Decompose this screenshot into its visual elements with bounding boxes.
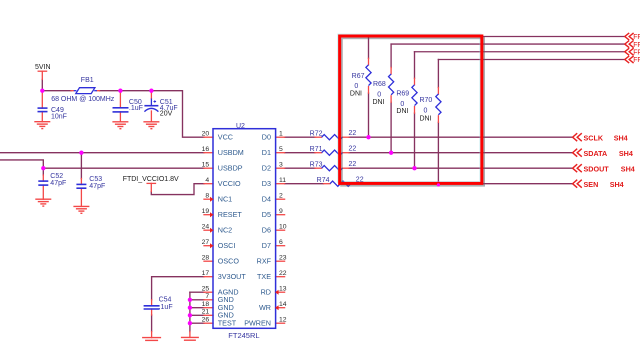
svg-text:3: 3 [279,162,283,169]
svg-text:D4: D4 [262,195,271,204]
svg-text:R71: R71 [310,146,323,153]
svg-text:22: 22 [356,177,364,184]
svg-text:D0: D0 [262,133,271,142]
svg-text:SH4: SH4 [610,180,624,189]
svg-text:NC2: NC2 [218,226,232,235]
svg-text:FFC: FFC [633,57,640,64]
svg-text:0: 0 [354,83,358,90]
svg-text:FB1: FB1 [81,77,94,84]
svg-text:11: 11 [279,177,286,184]
svg-text:0: 0 [400,101,404,108]
svg-text:FFC: FFC [633,42,640,49]
svg-text:SDOUT: SDOUT [584,164,610,173]
svg-text:R74: R74 [317,177,330,184]
svg-text:OSCO: OSCO [218,257,240,266]
svg-text:22: 22 [349,146,357,153]
svg-text:VCCIO: VCCIO [218,179,241,188]
svg-text:4.7uF: 4.7uF [160,105,178,112]
svg-text:5VIN: 5VIN [35,64,51,71]
svg-text:U2: U2 [236,123,245,130]
svg-text:21: 21 [202,309,210,316]
svg-text:C54: C54 [159,297,172,304]
svg-text:24: 24 [202,224,210,231]
svg-text:WR: WR [259,303,271,312]
svg-text:SCLK: SCLK [584,133,604,142]
svg-text:RD: RD [261,288,271,297]
svg-text:14: 14 [279,301,287,308]
svg-text:DNI: DNI [396,108,408,115]
svg-text:22: 22 [349,130,357,137]
svg-text:D1: D1 [262,148,271,157]
svg-text:SH4: SH4 [614,133,628,142]
svg-text:FFC: FFC [633,34,640,41]
svg-text:PWREN: PWREN [244,319,271,328]
svg-text:6: 6 [279,239,283,246]
svg-text:DNI: DNI [350,90,362,97]
svg-text:68 OHM @ 100MHz: 68 OHM @ 100MHz [51,96,115,103]
svg-text:RXF: RXF [257,257,272,266]
svg-text:28: 28 [202,255,210,262]
svg-text:D3: D3 [262,179,271,188]
svg-text:47pF: 47pF [89,183,105,190]
svg-text:R67: R67 [352,73,365,80]
svg-text:FFC: FFC [633,50,640,57]
svg-text:TXE: TXE [257,272,271,281]
svg-text:DNI: DNI [420,115,432,122]
svg-text:R70: R70 [419,97,432,104]
svg-text:22: 22 [349,161,357,168]
svg-text:18: 18 [202,301,210,308]
svg-text:10nF: 10nF [51,114,67,121]
svg-text:FT245RL: FT245RL [228,331,259,340]
svg-text:.1uF: .1uF [159,304,173,311]
svg-text:17: 17 [202,270,210,277]
svg-text:DNI: DNI [373,99,385,106]
svg-text:47pF: 47pF [50,180,66,187]
svg-text:7: 7 [205,293,209,300]
svg-text:2: 2 [279,193,283,200]
svg-text:5: 5 [279,146,283,153]
svg-text:10: 10 [279,224,287,231]
svg-text:SDATA: SDATA [584,149,608,158]
svg-text:26: 26 [202,317,210,324]
svg-text:15: 15 [202,162,210,169]
svg-text:R69: R69 [396,90,409,97]
svg-text:16: 16 [202,146,210,153]
svg-text:TEST: TEST [218,319,237,328]
svg-text:D7: D7 [262,241,271,250]
svg-text:SH4: SH4 [621,164,635,173]
svg-text:USBDM: USBDM [218,148,244,157]
svg-text:9: 9 [279,208,283,215]
svg-text:27: 27 [202,239,210,246]
svg-text:D2: D2 [262,164,271,173]
svg-text:C53: C53 [89,176,102,183]
svg-text:FTDI_VCCIO1.8V: FTDI_VCCIO1.8V [123,176,179,183]
svg-text:8: 8 [205,193,209,200]
svg-text:R68: R68 [373,81,386,88]
svg-text:USBDP: USBDP [218,164,243,173]
svg-text:0: 0 [424,108,428,115]
svg-text:0: 0 [377,92,381,99]
svg-text:D5: D5 [262,210,271,219]
svg-text:23: 23 [279,255,287,262]
svg-text:20: 20 [202,131,210,138]
svg-text:25: 25 [202,286,210,293]
svg-text:12: 12 [279,317,287,324]
svg-text:SH4: SH4 [619,149,633,158]
svg-text:R72: R72 [310,131,323,138]
svg-text:3V3OUT: 3V3OUT [218,272,247,281]
svg-text:4: 4 [205,177,209,184]
svg-text:C52: C52 [50,173,63,180]
svg-text:22: 22 [279,270,287,277]
svg-text:NC1: NC1 [218,195,232,204]
svg-text:1: 1 [279,131,283,138]
svg-text:SEN: SEN [584,180,599,189]
svg-text:13: 13 [279,286,287,293]
svg-text:OSCI: OSCI [218,241,236,250]
svg-text:RESET: RESET [218,210,243,219]
svg-text:.1uF: .1uF [129,105,143,112]
svg-text:VCC: VCC [218,133,233,142]
svg-text:19: 19 [202,208,210,215]
svg-text:D6: D6 [262,226,271,235]
svg-text:R73: R73 [310,162,323,169]
